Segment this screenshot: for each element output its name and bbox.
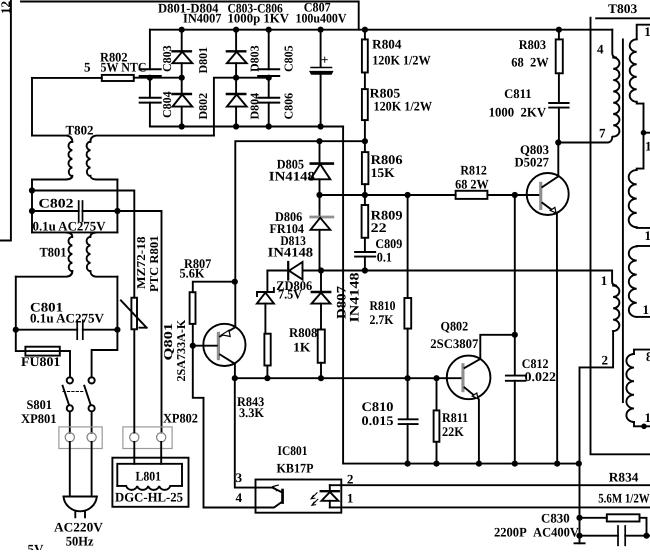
svg-text:0.015: 0.015 bbox=[362, 413, 394, 428]
svg-text:50Hz: 50Hz bbox=[66, 534, 94, 549]
svg-text:2: 2 bbox=[347, 472, 354, 487]
resistor R805 bbox=[362, 89, 368, 141]
transistor Q803 D5027 bbox=[527, 143, 569, 464]
transformer T803 secondary tap wire bbox=[637, 104, 650, 169]
svg-text:120K 1/2W: 120K 1/2W bbox=[372, 53, 431, 68]
svg-text:KB17P: KB17P bbox=[277, 461, 314, 476]
svg-text:XP802: XP802 bbox=[163, 411, 198, 426]
capacitor C803 bbox=[140, 30, 161, 78]
svg-text:FU801: FU801 bbox=[21, 354, 60, 369]
svg-text:5V: 5V bbox=[28, 542, 45, 551]
svg-text:R808: R808 bbox=[289, 325, 318, 340]
capacitor C804 bbox=[140, 78, 161, 127]
svg-text:C806: C806 bbox=[282, 93, 296, 120]
svg-text:IN4148: IN4148 bbox=[268, 245, 314, 260]
svg-text:C810: C810 bbox=[362, 399, 394, 414]
capacitor C812 bbox=[506, 195, 526, 464]
svg-text:IN4148: IN4148 bbox=[269, 168, 316, 183]
wire left rail x=32 lower bbox=[31, 180, 33, 233]
transformer T803 label underline bbox=[596, 17, 650, 19]
wire bridge AC1 mid-left bbox=[134, 77, 182, 79]
wire left live rail x=32 upper bbox=[31, 78, 33, 136]
resistor R834 bbox=[580, 514, 647, 535]
capacitor C801 bbox=[16, 320, 118, 339]
svg-text:T802: T802 bbox=[66, 122, 94, 137]
transistor Q801 2SA733A-K bbox=[193, 324, 246, 378]
fuse FU801 bbox=[16, 330, 70, 378]
wire +B rail y=29.7 bbox=[150, 29, 612, 31]
svg-text:DGC-HL-25: DGC-HL-25 bbox=[115, 490, 183, 505]
connector XP802 bbox=[123, 427, 172, 449]
svg-text:IN4007: IN4007 bbox=[183, 10, 222, 25]
svg-text:1K: 1K bbox=[293, 340, 311, 355]
svg-text:4: 4 bbox=[236, 490, 243, 505]
wire Q803 collector node to T803 pin7 bbox=[558, 137, 612, 143]
resistor R807 bbox=[190, 282, 235, 346]
wire bridge-neg feed to D805/R806 bbox=[235, 141, 365, 327]
transformer T803 primary winding pins 4-7 bbox=[612, 30, 619, 137]
optocoupler IC801 LED bbox=[321, 485, 339, 507]
svg-text:0.1u AC275V: 0.1u AC275V bbox=[33, 219, 107, 234]
svg-text:PTC R801: PTC R801 bbox=[147, 236, 161, 293]
svg-text:C802: C802 bbox=[39, 196, 74, 211]
transformer T801 left winding bbox=[16, 233, 73, 277]
svg-text:0.1u AC275V: 0.1u AC275V bbox=[30, 311, 105, 326]
capacitor C806 bbox=[258, 78, 279, 127]
svg-text:8: 8 bbox=[646, 349, 650, 364]
capacitor C811 bbox=[549, 103, 568, 143]
wire primary ground rail x=343 bbox=[342, 127, 344, 464]
diode D805 bbox=[311, 141, 333, 195]
svg-text:5.6K: 5.6K bbox=[180, 266, 206, 281]
transformer T802 left winding bbox=[32, 136, 72, 180]
diode D807 bbox=[312, 271, 331, 330]
resistor R810 bbox=[404, 195, 411, 378]
svg-text:2200P AC400V: 2200P AC400V bbox=[494, 525, 580, 540]
svg-text:D801: D801 bbox=[196, 47, 210, 74]
transformer T801 right winding bbox=[87, 233, 118, 277]
thermistor PTC R801 bbox=[121, 298, 147, 433]
svg-text:5W NTC: 5W NTC bbox=[101, 59, 147, 74]
svg-text:1: 1 bbox=[645, 228, 650, 243]
svg-text:+: + bbox=[321, 52, 328, 67]
transformer T803 feedback winding pins 1-2 bbox=[580, 271, 620, 464]
wire bridge bottom rail bbox=[150, 126, 343, 128]
wire C801 right to switch bbox=[92, 330, 118, 378]
svg-text:D802: D802 bbox=[196, 93, 210, 120]
svg-text:2.7K: 2.7K bbox=[370, 312, 395, 327]
diode D803 bbox=[227, 30, 247, 78]
resistor R808 bbox=[318, 330, 325, 379]
connector XP801 bbox=[59, 427, 102, 449]
svg-text:2SC3807: 2SC3807 bbox=[430, 336, 479, 351]
transformer T803 secondary winding B bbox=[629, 170, 650, 228]
resistor R809 bbox=[362, 195, 369, 251]
svg-text:5: 5 bbox=[84, 59, 91, 74]
svg-text:0.022: 0.022 bbox=[525, 369, 557, 384]
wire bottom hot-ground rail bbox=[343, 463, 579, 465]
capacitor C830 bbox=[580, 526, 650, 545]
wire switch to XP801 bbox=[70, 411, 92, 432]
svg-text:T801: T801 bbox=[40, 245, 67, 260]
svg-text:1: 1 bbox=[601, 273, 608, 288]
svg-text:IC801: IC801 bbox=[278, 443, 308, 458]
svg-text:C805: C805 bbox=[282, 45, 296, 72]
svg-text:1000 2KV: 1000 2KV bbox=[489, 104, 547, 119]
svg-text:T803: T803 bbox=[608, 1, 638, 16]
zener diode ZD806 bbox=[257, 271, 274, 334]
resistor below ZD806 bbox=[264, 334, 270, 379]
svg-text:3: 3 bbox=[236, 470, 243, 485]
svg-text:7.5V: 7.5V bbox=[278, 286, 303, 301]
wire D813 node rail y=270.5 bbox=[267, 270, 612, 272]
svg-text:D803: D803 bbox=[248, 45, 262, 72]
resistor R811 bbox=[434, 378, 440, 463]
transformer T803 secondary winding D bbox=[626, 350, 650, 427]
svg-text:100u400V: 100u400V bbox=[296, 11, 347, 26]
svg-text:1000p 1KV: 1000p 1KV bbox=[228, 10, 290, 25]
svg-text:C830: C830 bbox=[541, 510, 570, 525]
resistor R843 bbox=[235, 378, 256, 487]
diode D802 bbox=[173, 78, 193, 127]
svg-text:1: 1 bbox=[644, 24, 650, 39]
svg-text:XP801: XP801 bbox=[21, 411, 57, 426]
transformer T803 core line bbox=[622, 40, 624, 403]
wire C801 box right side bbox=[116, 277, 118, 330]
wire secondary ground drop x=579.5 bbox=[575, 464, 585, 544]
svg-text:0.1: 0.1 bbox=[377, 249, 392, 264]
svg-text:C811: C811 bbox=[504, 86, 531, 101]
diode D806 FR104 bbox=[311, 195, 333, 270]
svg-text:3.3K: 3.3K bbox=[239, 405, 265, 420]
resistor R812 bbox=[319, 191, 539, 199]
diode D813 bbox=[288, 262, 302, 280]
resistor R803 bbox=[556, 30, 563, 103]
svg-text:22K: 22K bbox=[442, 424, 465, 439]
wire Q801 base to IC801 pin4 bbox=[193, 346, 256, 508]
svg-text:Q801: Q801 bbox=[161, 323, 175, 361]
switch S801 bbox=[63, 377, 95, 411]
svg-text:5.6M 1/2W: 5.6M 1/2W bbox=[598, 490, 650, 505]
resistor R804 bbox=[362, 30, 368, 89]
svg-text:2: 2 bbox=[602, 353, 609, 368]
diode D804 bbox=[227, 78, 247, 127]
transformer T803 shield line bbox=[591, 18, 650, 455]
optocoupler IC801 phototransistor bbox=[256, 485, 284, 507]
svg-text:1: 1 bbox=[347, 491, 354, 506]
svg-text:L801: L801 bbox=[136, 469, 162, 484]
svg-text:MZ72-18: MZ72-18 bbox=[134, 237, 148, 290]
svg-text:120K 1/2W: 120K 1/2W bbox=[374, 99, 433, 114]
diode D801 bbox=[173, 30, 193, 78]
wire C801 box left side bbox=[15, 277, 17, 330]
svg-text:R810: R810 bbox=[370, 298, 396, 313]
svg-text:15K: 15K bbox=[371, 165, 396, 180]
svg-text:C803: C803 bbox=[160, 45, 174, 72]
svg-text:2SA733A-K: 2SA733A-K bbox=[174, 319, 188, 381]
capacitor C802 bbox=[32, 201, 117, 221]
svg-text:1: 1 bbox=[643, 302, 650, 317]
transistor Q802 2SC3807 bbox=[447, 335, 515, 464]
capacitor C810 bbox=[399, 378, 418, 463]
svg-text:IN4148: IN4148 bbox=[347, 272, 362, 323]
svg-text:R812: R812 bbox=[460, 162, 487, 177]
svg-text:22: 22 bbox=[371, 220, 387, 235]
transformer T802 right winding bbox=[87, 136, 214, 180]
wire bridge AC2 mid-right with jog down to T802 bbox=[214, 78, 269, 136]
svg-text:R803: R803 bbox=[519, 37, 547, 52]
svg-text:R834: R834 bbox=[609, 470, 639, 485]
svg-text:D5027: D5027 bbox=[515, 154, 550, 169]
resistor R806 bbox=[362, 141, 369, 195]
wire Q802 base node rail y=378.2 bbox=[235, 377, 461, 379]
svg-text:AC220V: AC220V bbox=[54, 520, 103, 535]
AC plug bbox=[64, 497, 97, 518]
transformer T803 secondary winding C bbox=[629, 246, 650, 317]
capacitor C809 bbox=[355, 252, 375, 271]
node 12 pin wire top-left bbox=[0, 0, 11, 241]
svg-text:4: 4 bbox=[597, 42, 604, 57]
capacitor C807 electrolytic bbox=[311, 30, 332, 127]
svg-text:C804: C804 bbox=[160, 91, 174, 118]
wire C802 top branch to PTC bbox=[32, 191, 134, 298]
optocoupler IC801 KB17P bbox=[256, 480, 342, 513]
degaussing coil L801 bbox=[112, 442, 188, 507]
svg-text:1: 1 bbox=[645, 139, 650, 154]
wire top border from pin12 box bbox=[21, 2, 359, 30]
svg-text:68 2W: 68 2W bbox=[511, 54, 549, 69]
transformer T803 secondary winding A bbox=[630, 25, 650, 104]
wire IC801 pin2 bbox=[330, 484, 650, 486]
svg-text:68 2W: 68 2W bbox=[455, 177, 489, 192]
wire right rail x=117 bbox=[116, 180, 118, 233]
svg-text:D804: D804 bbox=[248, 93, 262, 120]
svg-text:7: 7 bbox=[599, 125, 606, 140]
resistor R802 bbox=[32, 75, 134, 81]
wire T801 top bar bbox=[32, 231, 117, 233]
capacitor C805 bbox=[258, 30, 279, 78]
svg-text:S801: S801 bbox=[27, 397, 53, 412]
wire C802 right branch to XP802 bbox=[117, 211, 161, 433]
svg-text:1: 1 bbox=[645, 410, 650, 425]
optocoupler IC801 light arrows bbox=[311, 493, 318, 506]
wire IC801 pin1 bbox=[330, 506, 650, 508]
svg-text:Q802: Q802 bbox=[441, 319, 469, 334]
svg-text:12: 12 bbox=[0, 1, 13, 14]
wire XP801 to plug bbox=[70, 442, 92, 497]
svg-text:R804: R804 bbox=[372, 36, 402, 51]
